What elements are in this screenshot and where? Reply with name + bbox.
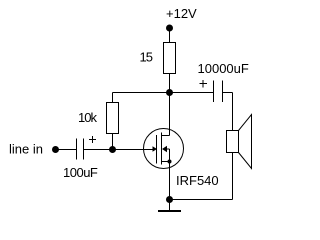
svg-text:10000uF: 10000uF	[198, 61, 249, 76]
svg-text:15: 15	[140, 50, 153, 65]
svg-text:line in: line in	[9, 142, 43, 157]
svg-text:IRF540: IRF540	[176, 173, 219, 188]
svg-text:+12V: +12V	[166, 6, 197, 21]
svg-text:100uF: 100uF	[63, 165, 98, 180]
svg-text:10k: 10k	[78, 110, 97, 125]
